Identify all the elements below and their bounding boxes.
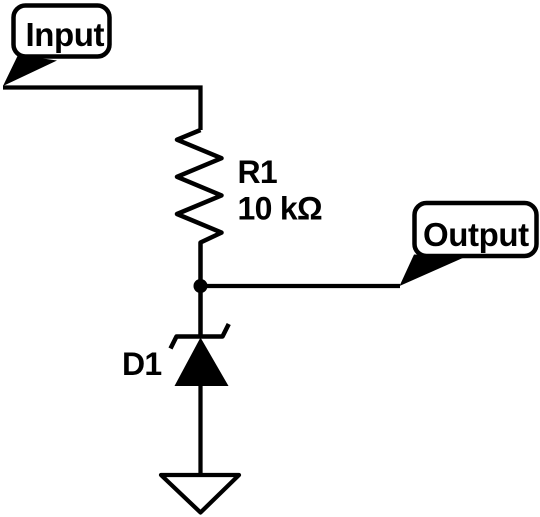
svg-text:Input: Input [26,16,105,53]
svg-text:D1: D1 [122,346,162,382]
svg-text:Output: Output [423,216,529,253]
svg-text:R1: R1 [238,154,278,190]
svg-text:10 kΩ: 10 kΩ [238,191,322,227]
